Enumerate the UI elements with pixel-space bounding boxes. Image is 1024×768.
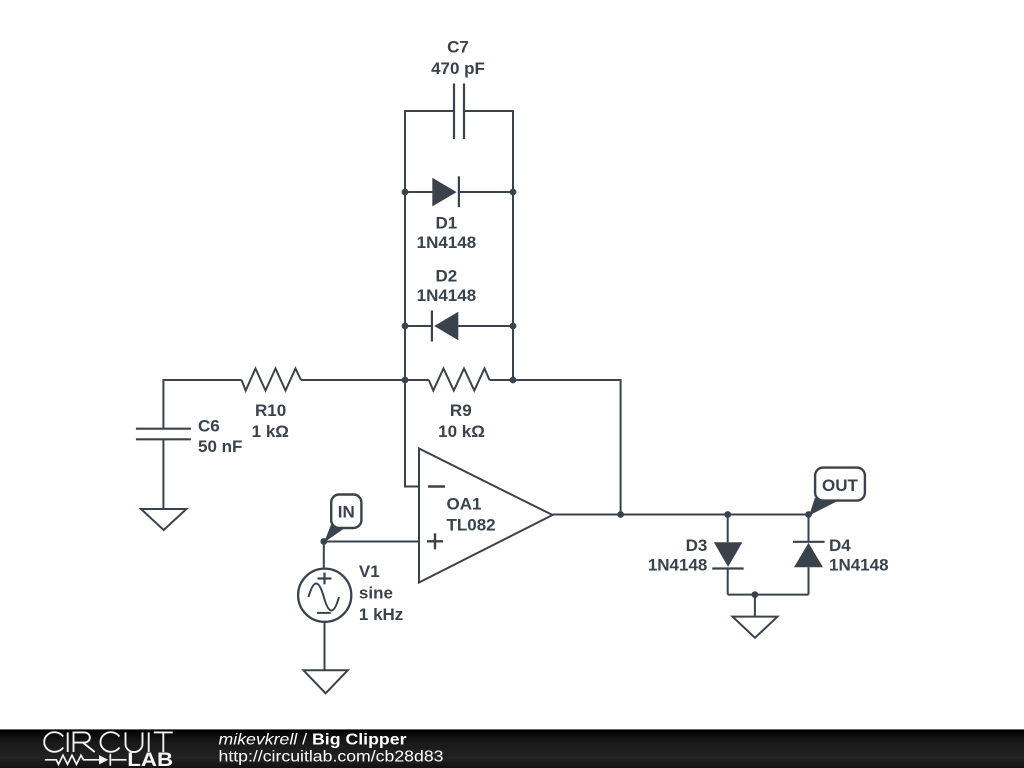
- svg-text:10 kΩ: 10 kΩ: [438, 422, 485, 441]
- svg-text:D1: D1: [436, 213, 458, 232]
- wire D1 right lead: [459, 191, 513, 193]
- svg-text:OUT: OUT: [822, 476, 859, 495]
- svg-text:R10: R10: [255, 401, 286, 420]
- logo resistor-diode squiggle: [45, 754, 127, 766]
- svg-text:IN: IN: [338, 503, 355, 522]
- flag IN: [324, 495, 361, 543]
- source V1: [298, 569, 351, 622]
- svg-text:C7: C7: [447, 38, 469, 57]
- V1 sine wave: [309, 584, 340, 611]
- wire top-right C7 branch: [465, 111, 513, 380]
- wire D3 bottom lead: [727, 569, 729, 595]
- V1 minus sign: [317, 612, 331, 614]
- wire D1 left lead: [405, 191, 432, 193]
- svg-text:1N4148: 1N4148: [648, 555, 708, 574]
- svg-text:LAB: LAB: [127, 750, 173, 768]
- wire C6 to R10: [163, 380, 241, 429]
- diode D4: [794, 543, 823, 567]
- svg-text:1N4148: 1N4148: [417, 286, 477, 305]
- ground under C6: [141, 509, 186, 530]
- wire D4 top lead: [808, 515, 810, 542]
- wire noninverting input: [324, 541, 419, 543]
- op-amp plus sign: [427, 533, 443, 549]
- svg-text:R9: R9: [450, 401, 472, 420]
- svg-text:D4: D4: [829, 536, 851, 555]
- svg-text:V1: V1: [359, 562, 380, 581]
- svg-text:TL082: TL082: [447, 515, 496, 534]
- svg-text:sine: sine: [359, 583, 393, 602]
- wire D2 left lead: [405, 325, 432, 327]
- wire C6 bottom lead: [162, 439, 164, 509]
- wire D3-D4 bottom bus: [728, 594, 809, 596]
- svg-text:OA1: OA1: [447, 494, 482, 513]
- diode D3: [714, 542, 743, 567]
- resistor R10: [242, 369, 302, 391]
- logo CIRCUIT text: [44, 732, 173, 752]
- wire D3 top lead: [727, 515, 729, 543]
- V1 plus sign: [318, 573, 332, 585]
- svg-text:1 kHz: 1 kHz: [359, 605, 403, 624]
- svg-text:50 nF: 50 nF: [198, 437, 242, 456]
- wire D2 right lead: [458, 325, 513, 327]
- capacitor C7: [454, 84, 464, 140]
- wire R10 to R9: [301, 379, 429, 381]
- svg-text:mikevkrell / Big Clipper: mikevkrell / Big Clipper: [219, 732, 407, 749]
- svg-text:D2: D2: [436, 267, 458, 286]
- wire inverting input: [405, 380, 419, 487]
- flag OUT: [809, 468, 865, 516]
- diode D1: [432, 178, 456, 207]
- op-amp minus sign: [428, 485, 445, 487]
- ground under D3 D4: [733, 617, 778, 638]
- svg-text:470 pF: 470 pF: [431, 59, 485, 78]
- wire top-left C7 branch: [405, 111, 454, 380]
- diode D2: [434, 312, 458, 341]
- wire V1 top lead: [323, 542, 325, 569]
- resistor R9: [429, 369, 490, 391]
- junction node dots: [402, 189, 409, 196]
- svg-text:D3: D3: [686, 536, 708, 555]
- wire op-amp output: [553, 514, 809, 516]
- svg-text:http://circuitlab.com/cb28d83: http://circuitlab.com/cb28d83: [219, 749, 444, 766]
- ground under V1: [303, 670, 347, 693]
- wire R9 right to feedback corner: [490, 380, 621, 515]
- wire D4 bottom lead: [808, 567, 810, 594]
- wire V1 bottom lead: [324, 622, 326, 671]
- op-amp OA1: [419, 449, 553, 583]
- svg-text:C6: C6: [198, 417, 220, 436]
- svg-text:1N4148: 1N4148: [417, 233, 477, 252]
- svg-text:1N4148: 1N4148: [829, 555, 889, 574]
- svg-text:1 kΩ: 1 kΩ: [252, 422, 289, 441]
- wire ground stem right: [754, 595, 756, 617]
- capacitor C6: [136, 429, 191, 440]
